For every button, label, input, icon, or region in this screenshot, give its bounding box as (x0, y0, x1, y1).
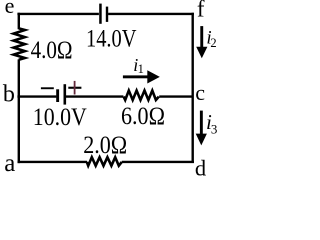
svg-text:14.0V: 14.0V (86, 25, 137, 52)
svg-text:d: d (195, 156, 206, 177)
svg-text:2.0Ω: 2.0Ω (83, 132, 127, 159)
svg-text:1: 1 (138, 62, 144, 76)
svg-text:e: e (5, 0, 15, 18)
svg-text:3: 3 (211, 121, 218, 136)
svg-text:a: a (4, 150, 15, 177)
svg-text:4.0Ω: 4.0Ω (31, 37, 73, 64)
svg-text:c: c (195, 80, 205, 105)
svg-text:10.0V: 10.0V (33, 104, 87, 131)
svg-text:2: 2 (210, 36, 216, 50)
svg-text:f: f (197, 0, 205, 23)
svg-text:b: b (3, 82, 15, 108)
svg-text:6.0Ω: 6.0Ω (121, 103, 165, 130)
